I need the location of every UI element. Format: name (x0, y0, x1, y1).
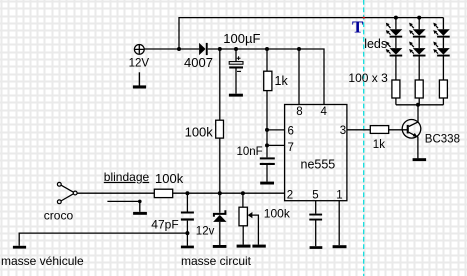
svg-text:100 x 3: 100 x 3 (348, 71, 388, 85)
wire LED bottom rail (396, 104, 444, 106)
supply +12V (134, 45, 144, 55)
svg-text:12V: 12V (129, 58, 150, 70)
ground (masse vehicule) (13, 246, 26, 249)
LED D4 (413, 29, 426, 36)
svg-text:10nF: 10nF (237, 146, 263, 158)
node 100k drop (218, 47, 222, 51)
wire pin 2 net (77, 192, 284, 194)
resistor R-col3 100 (439, 80, 447, 98)
wire pin 8 drop (298, 49, 300, 105)
node top rail col2 (417, 16, 421, 20)
node 1k (265, 47, 269, 51)
svg-text:7: 7 (288, 142, 294, 154)
ground (100uF) (229, 94, 243, 97)
node pin8 (297, 47, 301, 51)
svg-text:4: 4 (321, 106, 328, 118)
ground (pin5) (310, 246, 323, 249)
IC U1 ne555 timer (285, 105, 347, 201)
ground (47pF / masse circuit) (181, 246, 194, 249)
svg-text:blindage: blindage (104, 170, 150, 184)
svg-text:6: 6 (288, 126, 294, 138)
zener diode 12v (213, 193, 226, 245)
wire pin 1 to ground (338, 201, 340, 246)
capacitor 10nF (260, 157, 275, 181)
LED D7 (437, 48, 450, 55)
LED column 2 (413, 18, 426, 105)
node 47pF bottom (185, 231, 189, 235)
node rail-LED riser (177, 47, 181, 51)
wire masse vehicule (19, 233, 187, 246)
resistor 100k (horizontal) (154, 189, 172, 197)
ground (10nF) (260, 182, 274, 185)
wire pin 6 (267, 129, 285, 131)
resistor R-col2 100 (415, 80, 423, 98)
node pin6 (265, 128, 269, 132)
LED D3 (390, 48, 403, 55)
ground (wiper) (252, 245, 265, 248)
resistor 100k (rail to pin2 net) (216, 49, 224, 193)
wire pin 7 (267, 144, 285, 146)
croco clip (57, 182, 77, 203)
svg-text:3: 3 (340, 125, 346, 137)
wire column 1 (395, 18, 397, 105)
ground (zener) (213, 245, 227, 248)
svg-text:100µF: 100µF (223, 31, 260, 46)
node top rail col1 (394, 16, 398, 20)
capacitor 100uF (229, 49, 243, 94)
diode D1 4007 (199, 43, 208, 55)
ground (pin1) (333, 245, 347, 248)
svg-text:100k: 100k (264, 207, 291, 221)
svg-text:BC338: BC338 (425, 133, 460, 145)
node marker (red) (363, 17, 365, 19)
LED D2 (390, 29, 403, 36)
node LED bottom rail (416, 103, 420, 107)
transistor Q1 BC338 (402, 105, 421, 159)
svg-text:masse véhicule: masse véhicule (1, 254, 84, 268)
wire column 3 (442, 18, 444, 105)
svg-text:12v: 12v (196, 225, 215, 237)
LED D5 (413, 48, 426, 55)
LED emission arrows (386, 23, 438, 54)
node pin7 (265, 143, 269, 147)
svg-text:leds: leds (364, 37, 387, 51)
svg-text:croco: croco (44, 208, 74, 222)
svg-text:1: 1 (336, 190, 342, 202)
node 100uF (234, 47, 238, 51)
capacitor 47pF (181, 193, 194, 245)
svg-text:100k: 100k (155, 171, 184, 186)
ground (emitter) (413, 158, 427, 161)
LED D6 (437, 29, 450, 36)
svg-text:100k: 100k (185, 125, 214, 140)
svg-text:1k: 1k (275, 74, 289, 88)
wire pin 3 (347, 129, 408, 131)
wire column 2 (418, 18, 420, 105)
capacitor pin5 (309, 201, 322, 247)
node pot top (241, 191, 245, 195)
wire +12V rail (144, 48, 199, 50)
resistor 1k (rail to pin6) (264, 49, 272, 157)
resistor R-col1 100 (392, 80, 400, 98)
svg-text:ne555: ne555 (301, 157, 336, 171)
wire top rail to LEDs (179, 18, 443, 49)
svg-text:47pF: 47pF (151, 218, 178, 232)
wire rail diode to pin4 drop (208, 49, 324, 105)
svg-text:4007: 4007 (184, 55, 213, 70)
svg-text:2: 2 (287, 190, 293, 202)
svg-text:5: 5 (312, 190, 318, 202)
resistor 1k (base) (370, 126, 388, 134)
cursor dashed line (363, 0, 365, 276)
ground (supply) (133, 72, 146, 88)
svg-text:T: T (352, 17, 364, 36)
svg-text:masse circuit: masse circuit (181, 254, 252, 268)
ground (pot) (237, 245, 251, 248)
ground (shield) (133, 212, 147, 215)
potentiometer 100k (239, 193, 258, 244)
node zener top (218, 191, 222, 195)
wire shield to ground (107, 201, 139, 212)
svg-text:1k: 1k (373, 139, 385, 151)
LED column 1 (390, 18, 403, 105)
svg-text:8: 8 (296, 106, 302, 118)
node shield (138, 200, 142, 204)
node 47pF top (185, 191, 189, 195)
LED column 3 (437, 18, 450, 105)
